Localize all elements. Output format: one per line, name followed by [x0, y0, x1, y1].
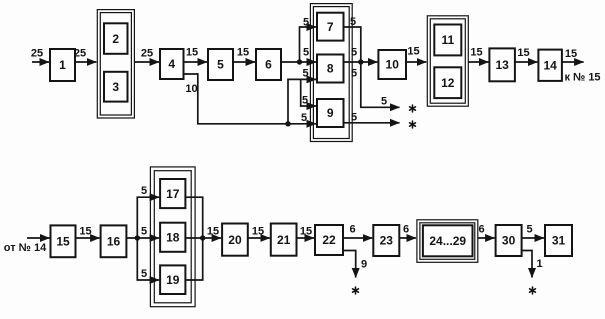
svg-text:15: 15 [186, 47, 198, 59]
svg-text:25: 25 [74, 48, 86, 60]
svg-text:5: 5 [301, 112, 307, 124]
svg-text:30: 30 [502, 234, 516, 248]
svg-text:5: 5 [351, 112, 357, 124]
svg-text:14: 14 [543, 58, 557, 72]
svg-text:15: 15 [207, 226, 219, 238]
svg-text:31: 31 [552, 234, 566, 248]
svg-text:6: 6 [403, 224, 409, 236]
svg-text:18: 18 [166, 230, 180, 244]
svg-text:5: 5 [141, 226, 147, 238]
svg-text:15: 15 [79, 226, 91, 238]
svg-text:5: 5 [141, 185, 147, 197]
svg-text:6: 6 [478, 224, 484, 236]
svg-text:5: 5 [302, 95, 308, 107]
svg-text:9: 9 [361, 259, 367, 271]
svg-text:от № 14: от № 14 [4, 242, 47, 254]
svg-text:2: 2 [112, 32, 119, 46]
svg-text:21: 21 [277, 233, 291, 247]
svg-text:17: 17 [166, 187, 180, 201]
svg-text:25: 25 [141, 48, 153, 60]
svg-text:5: 5 [302, 68, 308, 80]
svg-text:1: 1 [59, 58, 66, 72]
svg-text:16: 16 [107, 235, 121, 249]
svg-text:6: 6 [265, 58, 272, 72]
svg-text:5: 5 [303, 47, 309, 59]
svg-text:5: 5 [351, 68, 357, 80]
svg-text:1: 1 [536, 258, 542, 270]
svg-text:3: 3 [112, 80, 119, 94]
svg-text:23: 23 [380, 234, 394, 248]
svg-text:4: 4 [168, 57, 175, 71]
svg-text:15: 15 [470, 47, 482, 59]
svg-text:10: 10 [386, 58, 400, 72]
svg-text:13: 13 [495, 58, 509, 72]
svg-text:15: 15 [517, 47, 529, 59]
svg-text:22: 22 [322, 233, 336, 247]
svg-text:5: 5 [526, 224, 532, 236]
svg-text:15: 15 [300, 226, 312, 238]
svg-text:24...29: 24...29 [429, 234, 466, 248]
svg-text:19: 19 [166, 273, 180, 287]
svg-text:5: 5 [351, 47, 357, 59]
svg-text:15: 15 [252, 226, 264, 238]
svg-text:7: 7 [327, 20, 334, 34]
svg-text:5: 5 [303, 17, 309, 29]
svg-text:5: 5 [350, 16, 356, 28]
svg-text:11: 11 [441, 33, 454, 47]
svg-text:8: 8 [327, 62, 334, 76]
svg-text:25: 25 [31, 48, 43, 60]
svg-text:6: 6 [349, 224, 355, 236]
svg-text:к № 15: к № 15 [564, 72, 600, 84]
svg-text:5: 5 [217, 58, 224, 72]
svg-text:15: 15 [565, 48, 577, 60]
svg-text:5: 5 [381, 96, 387, 108]
svg-text:10: 10 [185, 83, 197, 95]
svg-text:9: 9 [327, 106, 334, 120]
svg-text:5: 5 [141, 268, 147, 280]
svg-text:20: 20 [228, 233, 242, 247]
svg-text:12: 12 [441, 76, 455, 90]
svg-text:15: 15 [56, 235, 70, 249]
svg-text:15: 15 [237, 47, 249, 59]
svg-text:15: 15 [407, 46, 419, 58]
